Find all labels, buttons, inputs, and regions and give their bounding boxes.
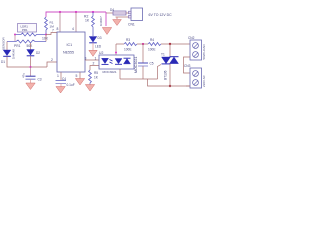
wire triac MT1 down xyxy=(169,64,171,87)
capacitor C5 xyxy=(138,62,148,64)
svg-text:4: 4 xyxy=(72,27,74,31)
svg-text:50W LOAD: 50W LOAD xyxy=(202,43,206,59)
wire IC pin8 drop xyxy=(59,12,61,32)
svg-text:1K: 1K xyxy=(85,19,90,23)
svg-text:D3: D3 xyxy=(98,36,102,40)
LDR1 resistive element zigzag xyxy=(15,33,46,36)
wire step up into IC pin 2 xyxy=(47,62,57,67)
wire D4 to CN1 xyxy=(126,12,131,14)
wire triac MT2 xyxy=(169,44,171,57)
svg-text:7: 7 xyxy=(52,29,54,33)
svg-text:R4: R4 xyxy=(150,38,154,42)
capacitor C4 xyxy=(56,80,67,82)
opto triac triangles xyxy=(115,59,122,64)
wire LDR right down xyxy=(45,35,47,42)
svg-text:1N4148: 1N4148 xyxy=(12,49,16,59)
node junction LDR right xyxy=(45,34,47,36)
LDR1 label box xyxy=(18,24,37,33)
resistor R3 xyxy=(124,43,137,46)
svg-text:2: 2 xyxy=(51,58,53,62)
svg-text:230V AC: 230V AC xyxy=(202,74,206,87)
svg-text:D4: D4 xyxy=(110,8,114,12)
wire junction to IC pin 7 step xyxy=(46,33,57,35)
resistor R2 vertical xyxy=(92,12,95,36)
svg-text:10K: 10K xyxy=(42,37,49,41)
wire bottom routing opto to snubber rail xyxy=(120,78,158,80)
svg-text:SENSOR: SENSOR xyxy=(2,36,6,50)
node junction on rail at IC pin 4 xyxy=(75,11,77,13)
CN3 screw terminal top xyxy=(193,71,199,77)
svg-text:U2: U2 xyxy=(99,51,103,55)
svg-text:3: 3 xyxy=(85,57,87,61)
svg-text:6V TO 12V DC: 6V TO 12V DC xyxy=(149,13,173,17)
node junction snubber xyxy=(142,43,144,45)
CN2 screw terminal top xyxy=(193,43,199,49)
CN2 screw terminal bottom xyxy=(193,52,199,58)
CN1 pin tab 1 xyxy=(129,11,132,14)
opto top pin wire to R3 line xyxy=(115,44,117,55)
wire snubber down xyxy=(142,44,144,63)
preset PR1 zigzag xyxy=(7,40,46,43)
wire rail drop to power flag xyxy=(105,12,107,26)
wire LDR left down to preset xyxy=(14,35,16,42)
svg-text:8: 8 xyxy=(57,27,59,31)
svg-text:0.1uF: 0.1uF xyxy=(67,83,75,87)
wire preset left end down to diode D1 xyxy=(6,42,8,51)
wire CN3 lower pin xyxy=(186,85,190,87)
wire bottom rail to CN3 xyxy=(148,79,191,86)
svg-text:C3: C3 xyxy=(38,78,42,82)
op-amp IC1 body xyxy=(57,32,85,72)
svg-text:PR1: PR1 xyxy=(22,28,28,32)
resistor R4 xyxy=(148,43,161,46)
node junction on rail at R2 xyxy=(92,11,94,13)
ground arrow under input wire xyxy=(116,17,118,19)
ground arrow under C3 xyxy=(26,83,35,90)
svg-text:1N4007: 1N4007 xyxy=(99,16,103,26)
svg-text:100E: 100E xyxy=(148,48,155,52)
wire C4 to ground xyxy=(60,84,62,89)
svg-text:C5: C5 xyxy=(150,62,154,66)
wire top supply rail xyxy=(46,12,106,17)
ground arrow under R5 xyxy=(85,85,94,92)
wire D1 to bottom rail corner xyxy=(7,57,47,68)
CN1 pin tab 2 xyxy=(129,15,132,18)
svg-text:MOC3021: MOC3021 xyxy=(103,70,117,74)
svg-text:CN1: CN1 xyxy=(128,23,135,27)
svg-text:D2: D2 xyxy=(36,51,40,55)
svg-text:47u: 47u xyxy=(22,73,26,78)
IC1 bottom pin 1 wire xyxy=(60,72,62,80)
svg-text:5: 5 xyxy=(76,74,78,78)
svg-text:1K: 1K xyxy=(94,76,99,80)
connector CN1 box xyxy=(131,8,143,21)
node junction MT1 bottom rail xyxy=(169,85,171,87)
svg-text:100E: 100E xyxy=(124,48,131,52)
svg-text:BT136: BT136 xyxy=(164,70,168,80)
capacitor C3 xyxy=(30,67,32,76)
wire D2 down to rail xyxy=(30,56,32,67)
svg-text:LED: LED xyxy=(95,45,102,49)
node junction bottom-left rail xyxy=(30,66,32,68)
optocoupler U2 box xyxy=(99,55,134,69)
node junction triac MT2 xyxy=(169,43,171,45)
wire C5 down to bottom rail xyxy=(142,66,144,79)
ground arrow under C4 xyxy=(56,87,65,94)
CN3 screw terminal bottom xyxy=(193,80,199,86)
svg-text:PR1: PR1 xyxy=(14,44,21,48)
svg-text:NE555: NE555 xyxy=(63,51,74,55)
connector CN3 box xyxy=(190,68,202,88)
node junction on rail at IC pin 8 xyxy=(59,11,61,13)
wire R3 net from opto top xyxy=(116,43,124,45)
svg-text:1: 1 xyxy=(95,57,97,61)
wire triac gate xyxy=(158,65,162,80)
connector CN2 box xyxy=(190,40,202,60)
svg-text:CN3: CN3 xyxy=(184,64,191,68)
svg-text:MOC3021: MOC3021 xyxy=(134,57,138,73)
svg-text:D1: D1 xyxy=(1,60,5,64)
opto LED triangle xyxy=(102,58,109,63)
resistor R5 from opto pin2 xyxy=(89,70,92,85)
resistor R1 vertical xyxy=(45,17,48,35)
opto pin 2 stub xyxy=(90,66,99,71)
wire R4 to CN2 xyxy=(161,43,190,45)
svg-text:R5: R5 xyxy=(94,71,98,75)
svg-text:IC1: IC1 xyxy=(67,43,73,47)
svg-text:1: 1 xyxy=(57,74,59,78)
diode D4 body on supply input xyxy=(107,12,114,14)
wire CN2 lower pin to CN3 upper pin xyxy=(184,57,191,73)
wire between R3 and R4 xyxy=(137,43,148,45)
diode D1 xyxy=(3,50,11,56)
opto bottom pin wire xyxy=(119,69,121,79)
wire CN1 pin2 return xyxy=(116,16,132,18)
svg-text:T1: T1 xyxy=(161,53,165,57)
LED D3 xyxy=(89,37,97,43)
triac T1 symbol xyxy=(162,57,171,64)
svg-text:CN2: CN2 xyxy=(188,36,195,40)
ground arrow under LED xyxy=(89,50,97,56)
svg-text:50K: 50K xyxy=(27,44,34,48)
svg-text:2: 2 xyxy=(93,62,95,66)
wire IC pin3 to opto pin1 xyxy=(85,59,99,61)
svg-text:R3: R3 xyxy=(126,38,130,42)
wire IC pin4 drop xyxy=(75,12,77,32)
diode D2 on preset wiper xyxy=(30,43,32,50)
ground arrow under pin 5 xyxy=(79,72,81,79)
node junction LDR left xyxy=(14,34,16,36)
power flag arrow at rail right end xyxy=(102,28,111,35)
wire LED to ground flag xyxy=(92,43,94,51)
